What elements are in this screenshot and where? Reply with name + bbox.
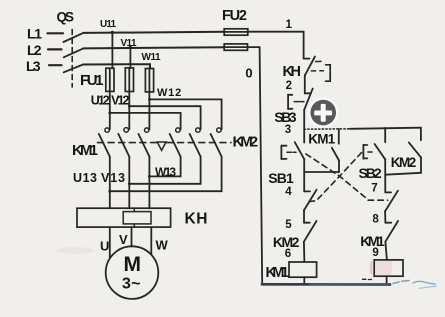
pushbutton SB3 stop (288, 89, 313, 130)
wire V12 KM1 pole2 top lead (128, 92, 130, 130)
pushbutton SB2 start reverse (363, 128, 385, 192)
contactor KM1 main contact pole3 (138, 128, 149, 157)
svg-text:1: 1 (285, 19, 292, 31)
wire V13 KM1 pole2 bottom lead (128, 157, 130, 209)
contact KM1 interlock NC (385, 221, 398, 260)
wire KM2 pole4 bottom to W13 (149, 157, 180, 177)
linkage SB1 to NC dashed (306, 154, 388, 200)
linkage triangle mark (157, 142, 166, 150)
svg-text:KM2: KM2 (391, 155, 417, 170)
wire U12 KM1 pole1 top lead (109, 91, 111, 129)
wire L1 lead (48, 32, 64, 34)
wire 0 bottom rail (262, 283, 390, 286)
fuse FU1a body (106, 68, 114, 91)
thermal relay KH NC contact (304, 57, 331, 94)
contact KM1 auxiliary holding (332, 129, 339, 172)
wire node 3 rail (304, 128, 350, 130)
wire L2 lead (48, 48, 62, 50)
svg-text:L3: L3 (26, 58, 41, 74)
junction U12 (108, 112, 111, 115)
svg-text:KM1: KM1 (72, 142, 98, 159)
junction V12 (128, 105, 131, 108)
svg-text:L1: L1 (27, 26, 42, 42)
svg-text:V12: V12 (111, 93, 129, 107)
wire KM2 pole5 bottom to V13 (129, 157, 200, 184)
thermal relay KH heater box (77, 208, 171, 227)
switch QS pole 3 blade (64, 65, 83, 73)
contact KM2 interlock NC (304, 221, 317, 262)
wire V12 branch to KM2 pole5 (129, 106, 200, 129)
svg-text:V13: V13 (101, 171, 125, 185)
motor M circle (106, 246, 159, 299)
svg-text:KM1: KM1 (266, 265, 289, 281)
wire L3 lead (49, 64, 62, 66)
svg-text:7: 7 (371, 182, 377, 194)
coil KM2 pink smudge (375, 261, 392, 276)
junction V11 tap (129, 46, 132, 49)
coil KM1 (289, 262, 317, 277)
wire W12 KM1 pole3 top lead (148, 92, 150, 129)
svg-text:U11: U11 (100, 19, 116, 30)
svg-text:W13: W13 (155, 165, 176, 179)
svg-text:V: V (119, 232, 128, 247)
stray pen dashes (363, 278, 367, 280)
wire fuse FU1b element (128, 68, 130, 92)
stray blue pen marks (393, 282, 399, 284)
svg-text:SB2: SB2 (359, 165, 382, 181)
linkage SB2 to NC dashed (305, 153, 362, 202)
svg-text:KM2: KM2 (233, 133, 259, 150)
svg-text:4: 4 (285, 186, 292, 198)
wire W12 branch to KM2 pole6 (149, 99, 221, 129)
wire bus W11 (83, 64, 150, 68)
contact SB1 linked NC in KM2 branch (385, 191, 398, 223)
svg-text:SB3: SB3 (274, 109, 296, 125)
svg-text:QS: QS (57, 10, 75, 25)
svg-text:9: 9 (372, 247, 378, 259)
contactor KM2 main contact pole6 (211, 128, 222, 157)
svg-text:W: W (156, 237, 169, 252)
svg-text:KH: KH (283, 64, 302, 80)
wire bus U11 (83, 32, 224, 33)
wire 0 from FU2b (248, 46, 260, 48)
svg-text:SB1: SB1 (268, 170, 294, 186)
svg-text:0: 0 (245, 65, 252, 80)
svg-text:U12: U12 (91, 94, 110, 108)
fuse FU2b body (224, 44, 247, 50)
linkage KM1 KM2 dashed (98, 142, 157, 144)
svg-text:FU2: FU2 (222, 8, 247, 24)
wire motor lead V (131, 227, 133, 246)
contactor KM2 main contact pole5 (190, 128, 201, 157)
svg-text:M: M (124, 253, 142, 276)
watermark zoom button (308, 97, 339, 128)
wire motor lead U (109, 227, 111, 258)
junction U13 (108, 190, 111, 193)
wire 0 vertical (260, 47, 263, 284)
svg-text:6: 6 (285, 248, 291, 260)
junction U11 tap (111, 31, 114, 34)
pushbutton SB1 start forward (281, 129, 304, 191)
wire V11 drop to FU1 (129, 48, 131, 68)
wire U13 KM1 pole1 bottom lead (109, 157, 111, 209)
wire fuse FU2b element (224, 46, 247, 48)
svg-text:3~: 3~ (122, 276, 141, 293)
contact SB2 linked NC in KM1 branch (304, 190, 317, 223)
wire 1 from FU2a to control (248, 32, 304, 59)
wire U11 drop to FU1 (111, 33, 113, 69)
svg-text:U13: U13 (73, 171, 97, 185)
wire coil KM2 to 0 rail (386, 276, 388, 284)
svg-text:W11: W11 (142, 52, 161, 63)
svg-text:U: U (100, 239, 109, 254)
wire bus V11 (83, 47, 224, 48)
svg-text:L2: L2 (27, 42, 42, 58)
scan smudges (56, 247, 94, 254)
svg-text:W12: W12 (157, 87, 181, 99)
fuse FU2a body (224, 29, 248, 35)
svg-text:KH: KH (185, 210, 208, 227)
fuse FU1b body (125, 68, 133, 92)
contactor KM1 main contact pole1 (99, 128, 110, 157)
wire fuse FU1a element (109, 68, 111, 91)
wire node 3 corner to KM2 aux (420, 128, 422, 141)
svg-text:3: 3 (285, 124, 291, 136)
wire W13 KM1 pole3 bottom lead (148, 157, 150, 209)
svg-text:2: 2 (286, 80, 292, 92)
junction V13 (128, 182, 131, 185)
svg-text:KM1: KM1 (308, 131, 335, 146)
contactor KM1 main contact pole2 (118, 128, 129, 157)
wire fuse FU2a element (224, 31, 248, 33)
wire motor lead W (150, 227, 152, 254)
wire U12 branch to KM2 pole4 (110, 113, 181, 129)
contact KM2 auxiliary holding (385, 142, 421, 174)
svg-text:FU1: FU1 (80, 72, 104, 89)
wire node 4 join (304, 171, 339, 173)
wire KM2 pole6 bottom to U13 (110, 157, 222, 192)
switch QS pole 2 blade (64, 48, 84, 57)
contactor KM2 main contact pole4 (170, 128, 181, 157)
switch QS pole 1 blade (63, 33, 83, 42)
wire coil KM1 to 0 rail (303, 277, 305, 284)
junction W12 (148, 98, 151, 101)
coil KM2 (374, 260, 403, 276)
svg-text:5: 5 (285, 219, 292, 231)
linkage QS dashed (71, 30, 73, 88)
junction W13 (148, 175, 151, 178)
fuse FU1c body (145, 69, 153, 92)
svg-text:8: 8 (372, 213, 379, 225)
wire fuse FU1c element (148, 69, 150, 92)
